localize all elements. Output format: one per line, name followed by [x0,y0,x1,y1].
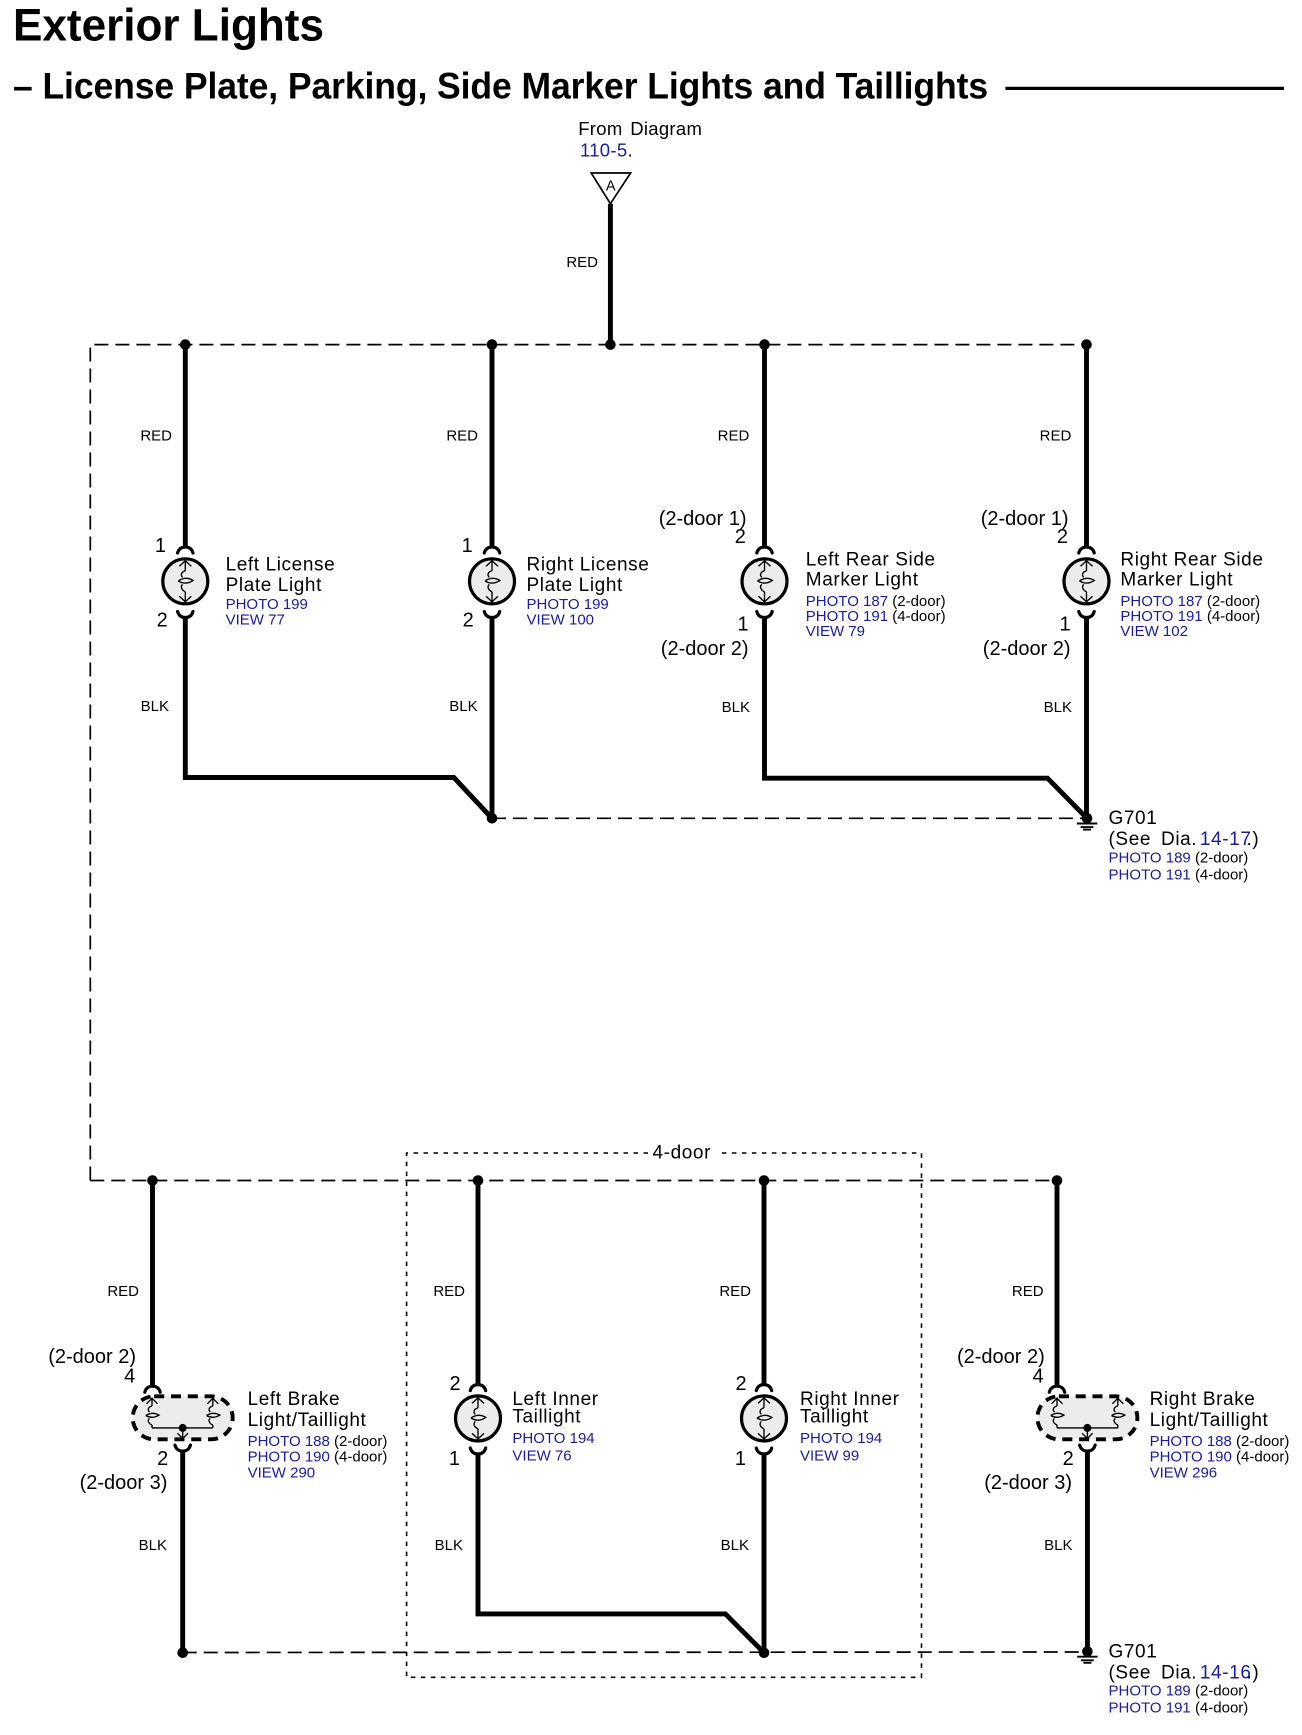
connector pin 2 col1 [178,612,193,618]
wire RED col1 [183,345,188,548]
svg-text:Plate Light: Plate Light [226,575,323,596]
svg-text:VIEW 290: VIEW 290 [248,1464,316,1481]
svg-text:BLK: BLK [435,1537,463,1554]
svg-text:RED: RED [140,428,172,445]
svg-text:A: A [606,179,616,195]
svg-text:Left Rear Side: Left Rear Side [806,549,936,570]
svg-text:Right Brake: Right Brake [1150,1389,1256,1410]
svg-text:VIEW 102: VIEW 102 [1120,623,1188,640]
wire BLK col4 [1084,617,1089,819]
wire: dashed power bus (bottom section) [90,1180,1057,1182]
node: BLK junction col5 on ground bus [177,1647,188,1658]
node: bus tap col1 [180,339,191,350]
node: BLK junction col6/col7 [759,1647,770,1658]
node: bus tap col3 [759,339,770,350]
ground G701 (bottom) [1077,1646,1097,1663]
node: feed junction on bus [605,339,616,350]
svg-text:1: 1 [735,1448,746,1470]
svg-text:2: 2 [1057,526,1068,548]
node: BLK junction col1/col2 [487,813,498,824]
wire RED col7 [762,1181,767,1386]
svg-text:(SeeDia.14-16.): (SeeDia.14-16.) [1109,1663,1260,1684]
wire: dashed power bus (top) [90,345,1086,1181]
svg-text:2: 2 [157,1448,168,1470]
lamp: Right License Plate Light [470,559,515,604]
svg-text:PHOTO 190 (4-door): PHOTO 190 (4-door) [1150,1449,1290,1466]
svg-text:Left Brake: Left Brake [248,1389,341,1410]
wire BLK col5 [180,1450,185,1653]
svg-text:PHOTO 188 (2-door): PHOTO 188 (2-door) [248,1433,388,1450]
node: bus tap col4 [1081,339,1092,350]
svg-text:(2-door 1): (2-door 1) [659,508,747,530]
svg-text:Marker Light: Marker Light [806,570,919,591]
svg-text:G701: G701 [1109,808,1158,829]
svg-text:RED: RED [718,428,750,445]
connector pin 1 col7 [756,1448,771,1454]
svg-text:1: 1 [737,614,748,636]
connector pin 1 col6 [470,1448,485,1454]
node: bus tap col8 [1052,1175,1063,1186]
connector pin 1 col2 [484,547,499,553]
svg-text:PHOTO 189 (2-door): PHOTO 189 (2-door) [1109,1683,1249,1700]
svg-text:RED: RED [566,254,598,271]
svg-text:VIEW 79: VIEW 79 [806,623,865,640]
svg-text:(2-door 2): (2-door 2) [661,638,749,660]
svg-text:(2-door 1): (2-door 1) [981,508,1069,530]
svg-text:(SeeDia.14-17.): (SeeDia.14-17.) [1109,829,1260,850]
svg-text:RED: RED [433,1283,465,1300]
connector pin 2 col7 [756,1385,771,1391]
lamp: Left License Plate Light [163,559,208,604]
svg-text:1: 1 [1059,614,1070,636]
svg-text:2: 2 [157,610,168,632]
svg-text:G701: G701 [1109,1642,1158,1663]
svg-text:RED: RED [446,428,478,445]
svg-text:110-5.: 110-5. [580,140,633,161]
wire BLK col1 [185,617,492,819]
svg-text:VIEW 77: VIEW 77 [226,612,285,629]
svg-text:RED: RED [719,1283,751,1300]
connector pin 1 col3 [757,612,772,618]
svg-text:Light/Taillight: Light/Taillight [248,1410,367,1431]
lamp: Left Inner Taillight [456,1396,501,1441]
svg-text:1: 1 [462,535,473,557]
ground G701 (top) [1077,813,1097,830]
svg-text:VIEW 99: VIEW 99 [800,1448,859,1465]
svg-text:BLK: BLK [722,699,750,716]
connector pin 2 col2 [484,612,499,618]
svg-text:Right Rear Side: Right Rear Side [1120,549,1263,570]
node: bus tap col2 [487,339,498,350]
svg-text:PHOTO 194: PHOTO 194 [800,1430,882,1447]
wire RED col4 [1084,345,1089,548]
wire RED col2 [490,345,495,548]
svg-text:2: 2 [463,610,474,632]
svg-text:RED: RED [1012,1283,1044,1300]
node: bus tap col6 [473,1175,484,1186]
lamp: Right Inner Taillight [742,1396,787,1441]
svg-text:VIEW 76: VIEW 76 [512,1448,571,1465]
svg-text:2: 2 [735,1373,746,1395]
svg-text:4-door: 4-door [653,1143,712,1164]
svg-text:Light/Taillight: Light/Taillight [1150,1410,1269,1431]
wire BLK col8 [1085,1450,1090,1652]
wire BLK col3 [765,617,1088,819]
svg-text:BLK: BLK [721,1537,749,1554]
svg-text:RED: RED [1040,428,1072,445]
svg-text:BLK: BLK [1044,1537,1072,1554]
svg-text:Exterior Lights: Exterior Lights [13,0,324,51]
lamp: Left Brake Light/Taillight [133,1396,233,1439]
svg-text:PHOTO 194: PHOTO 194 [512,1430,594,1447]
svg-text:2: 2 [735,526,746,548]
svg-text:Marker Light: Marker Light [1120,570,1233,591]
lamp: Left Rear Side Marker Light [742,559,787,604]
label: Right Inner Taillight [800,1389,900,1465]
svg-text:Right License: Right License [527,555,650,576]
svg-text:(2-door 2): (2-door 2) [983,638,1071,660]
wire BLK col6 [478,1453,764,1653]
connector pin 2 col8 [1080,1445,1095,1451]
svg-text:Taillight: Taillight [512,1407,581,1428]
svg-text:VIEW 296: VIEW 296 [1150,1464,1218,1481]
svg-text:4: 4 [124,1366,135,1388]
svg-text:(2-door 2): (2-door 2) [957,1346,1045,1368]
wire RED col3 [762,345,767,548]
lamp: Right Brake Light/Taillight [1037,1396,1137,1439]
wire RED col8 [1055,1181,1060,1387]
connector pin 2 col5 [175,1445,190,1451]
subtitle rule [1005,87,1284,90]
connector pin 4 col5 [145,1386,160,1392]
svg-text:BLK: BLK [1044,699,1072,716]
label: Left Brake Light/Taillight [248,1389,388,1481]
svg-text:PHOTO 190 (4-door): PHOTO 190 (4-door) [248,1449,388,1466]
svg-text:2: 2 [449,1373,460,1395]
label: Left Inner Taillight [512,1389,598,1465]
enclosure: 4-door dashed box [407,1153,922,1677]
connector pin 2 col6 [470,1385,485,1391]
wire: dashed ground bus (top) [492,817,1087,819]
svg-text:(2-door 3): (2-door 3) [80,1472,168,1494]
svg-text:BLK: BLK [141,698,169,715]
wire: dashed ground bus (bottom) [183,1651,1088,1654]
svg-text:(2-door 3): (2-door 3) [984,1472,1072,1494]
svg-text:Taillight: Taillight [800,1407,869,1428]
label: Left License Plate Light [226,555,336,629]
wire BLK col2 [490,617,495,819]
connector pin 2 col4 [1079,547,1094,553]
label: Right Brake Light/Taillight [1150,1389,1290,1481]
label: G701 (See Dia. 14-16.) [1109,1642,1260,1717]
node: bus tap col7 [759,1175,770,1186]
svg-text:4: 4 [1032,1366,1043,1388]
svg-text:PHOTO 188 (2-door): PHOTO 188 (2-door) [1150,1433,1290,1450]
svg-text:1: 1 [155,535,166,557]
connector pin 1 col4 [1079,612,1094,618]
svg-text:PHOTO 189 (2-door): PHOTO 189 (2-door) [1109,850,1249,867]
svg-text:FromDiagram: FromDiagram [578,118,702,139]
wire RED col5 [150,1181,155,1387]
label: G701 (See Dia. 14-17.) [1109,808,1260,884]
svg-text:PHOTO 199: PHOTO 199 [226,596,308,613]
wire: RED feed from connector A [608,204,613,345]
wire RED col6 [476,1181,481,1386]
svg-text:– License Plate, Parking, Side: – License Plate, Parking, Side Marker Li… [13,65,988,106]
svg-text:Plate Light: Plate Light [527,575,624,596]
label: Right License Plate Light [527,555,650,629]
svg-text:(2-door 2): (2-door 2) [48,1346,136,1368]
connector pin 1 col1 [178,547,193,553]
label: Left Rear Side Marker Light [806,549,946,640]
connector pin 2 col3 [757,547,772,553]
svg-text:1: 1 [449,1448,460,1470]
svg-text:2: 2 [1063,1448,1074,1470]
svg-text:PHOTO 199: PHOTO 199 [527,596,609,613]
svg-text:PHOTO 191 (4-door): PHOTO 191 (4-door) [1109,867,1249,884]
svg-text:VIEW 100: VIEW 100 [527,612,595,629]
svg-text:PHOTO 191 (4-door): PHOTO 191 (4-door) [1109,1700,1249,1717]
wire BLK col7 [762,1453,767,1653]
label: Right Rear Side Marker Light [1120,549,1263,640]
svg-text:RED: RED [107,1283,139,1300]
svg-text:BLK: BLK [449,698,477,715]
connector A (from diagram 110-5) [591,173,630,204]
connector pin 4 col8 [1049,1386,1064,1392]
svg-text:BLK: BLK [139,1537,167,1554]
svg-text:Left License: Left License [226,555,336,576]
lamp: Right Rear Side Marker Light [1064,559,1109,604]
node: bus tap col5 [147,1175,158,1186]
